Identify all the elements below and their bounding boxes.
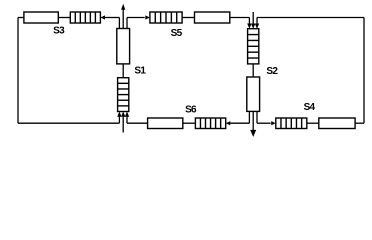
wire S5 body to S2 top node (230, 17, 250, 19)
wire S4 hatched to body (307, 122, 319, 124)
svg-text:S6: S6 (185, 104, 197, 115)
wire top-left segment (18, 17, 24, 19)
junction stems at S1 top (119, 18, 127, 29)
wire left edge (17, 18, 19, 124)
component S3 body box (24, 12, 58, 23)
component S2 hatched ladder (248, 29, 259, 64)
flow arrow into S6 (points left) (226, 121, 250, 125)
wire top-right segment (257, 17, 364, 19)
component S6 hatched box (195, 118, 225, 129)
wire bottom-right segment (355, 122, 364, 124)
junction stems at S2 bottom (249, 111, 257, 123)
junction stems at S1 bottom (119, 116, 127, 123)
component S4 body box (319, 118, 355, 129)
wire S6 body to hatched (183, 122, 196, 124)
triple flow arrowheads into S2 top (247, 24, 259, 29)
component S1 body box (117, 29, 130, 64)
wire S5 hatched to body (182, 17, 194, 19)
label S2 (266, 66, 278, 77)
component S3 hatched box (70, 12, 100, 23)
component S4 hatched box (276, 118, 307, 129)
label S5 (171, 28, 183, 39)
label S6 (185, 104, 197, 115)
flow arrow into S5 (points right) (145, 15, 150, 19)
wire S3 body to hatched (58, 17, 70, 19)
label S4 (304, 102, 316, 113)
component S6 body box (148, 118, 183, 129)
flow arrow into S3 (points left) (100, 15, 119, 19)
external inflow stub at S2 top (252, 12, 254, 24)
label S1 (134, 66, 146, 77)
junction stems at S2 top (249, 18, 257, 25)
wire S1 body to ladder (122, 64, 124, 78)
external inflow stub below S1 bottom (122, 116, 124, 132)
svg-text:S4: S4 (304, 102, 316, 113)
component S1 hatched ladder (118, 78, 129, 112)
triple flow arrowheads into S1 bottom (117, 112, 129, 117)
svg-text:S3: S3 (53, 26, 65, 37)
label S3 (53, 26, 65, 37)
wire S2 bottom node to S4 arrow (257, 122, 271, 124)
svg-text:S2: S2 (266, 66, 278, 77)
wire S1 top to S5 arrow (127, 17, 145, 19)
svg-text:S5: S5 (171, 28, 183, 39)
wire right edge (363, 18, 365, 124)
external outflow arrow down at S2 bottom (250, 111, 256, 136)
component S5 hatched box (150, 12, 182, 23)
component S2 body box (247, 77, 260, 111)
flow arrow into S4 (points right) (271, 121, 276, 125)
component S5 body box (195, 12, 230, 23)
svg-text:S1: S1 (134, 66, 146, 77)
external outflow arrow up at S1 top (121, 4, 125, 29)
wire S2 ladder to body (252, 64, 254, 77)
wire bottom-left segment (18, 122, 119, 124)
wire S1 bottom node to S6 body (127, 122, 148, 124)
